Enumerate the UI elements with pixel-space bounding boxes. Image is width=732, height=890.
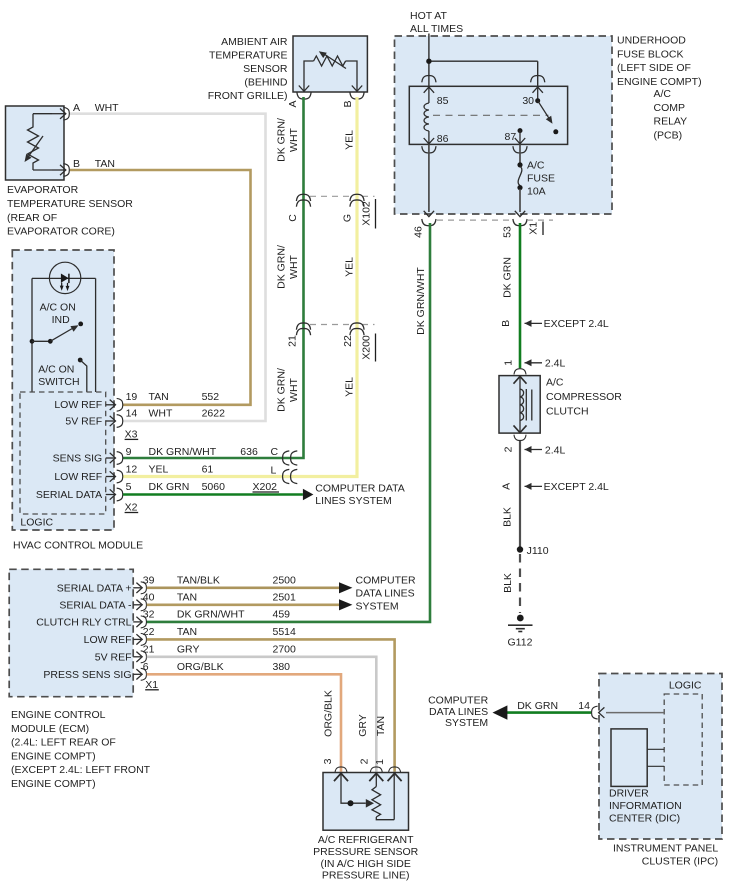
label 6 ORG/BLK 380 — [143, 661, 290, 673]
label HOT AT ALL TIMES — [410, 10, 463, 35]
engine control module dashed box — [9, 569, 133, 696]
svg-text:DK GRN/: DK GRN/ — [276, 118, 288, 162]
svg-text:EXCEPT 2.4L: EXCEPT 2.4L — [544, 481, 609, 493]
A/C fuse 10A — [517, 162, 522, 190]
svg-text:SERIAL DATA: SERIAL DATA — [36, 489, 102, 501]
pin B connector (ambient sensor) — [350, 86, 364, 100]
label 12 YEL 61 L — [126, 464, 277, 477]
wire TAN serial data - — [147, 599, 353, 610]
connector below relay pin 86 — [422, 146, 436, 153]
wire DK GRN serial data (pin 5) — [123, 489, 313, 501]
svg-text:5514: 5514 — [273, 626, 297, 638]
label A/C ON SWITCH — [38, 364, 79, 389]
svg-text:J110: J110 — [527, 545, 549, 557]
junction node (battery feed) — [426, 59, 431, 64]
svg-text:IND: IND — [52, 314, 71, 326]
label A/C COMP RELAY (PCB) — [654, 88, 688, 141]
svg-text:14: 14 — [126, 408, 138, 420]
svg-text:85: 85 — [437, 95, 449, 107]
dashed link X1 connector — [437, 219, 553, 221]
svg-text:DRIVER: DRIVER — [609, 788, 649, 800]
svg-text:6: 6 — [143, 661, 149, 673]
junction J110 — [517, 545, 549, 557]
svg-text:DATA LINES: DATA LINES — [356, 588, 415, 600]
svg-text:53: 53 — [502, 226, 514, 238]
svg-text:X2: X2 — [125, 502, 138, 514]
instrument panel cluster dashed box — [599, 674, 722, 840]
svg-text:636: 636 — [240, 446, 258, 458]
thermistor (evaporator temperature sensor) — [25, 114, 53, 170]
svg-text:2500: 2500 — [273, 574, 297, 586]
svg-text:GRY: GRY — [177, 643, 200, 655]
label 22 TAN 5514 — [143, 626, 296, 638]
relay coil pin 85 to 86 — [424, 87, 434, 144]
svg-text:EVAPORATOR CORE): EVAPORATOR CORE) — [7, 226, 115, 238]
inline connector L (row 12) — [283, 469, 298, 483]
wires DIC to logic — [647, 749, 664, 766]
wire ORG/BLK press sens sig to pressure sensor pin 3 — [147, 674, 341, 772]
pin A connector (ambient sensor) — [297, 86, 311, 100]
label A/C COMPRESSOR CLUTCH — [546, 377, 622, 418]
pin connector 5V REF 14 — [106, 415, 123, 428]
svg-text:SENSOR: SENSOR — [243, 63, 288, 75]
svg-text:A/C ON: A/C ON — [38, 364, 74, 376]
svg-text:A/C: A/C — [654, 88, 672, 100]
A/C refrigerant pressure sensor box — [323, 773, 409, 831]
svg-text:LOW REF: LOW REF — [54, 399, 102, 411]
label DK GRN/WHT (segment 1) — [276, 118, 301, 162]
relay dashed actuation line — [433, 114, 549, 116]
svg-text:INSTRUMENT PANEL: INSTRUMENT PANEL — [613, 843, 718, 855]
label X200 — [361, 334, 376, 362]
svg-text:X200: X200 — [361, 335, 373, 360]
arrow 2.4L (pin 1) — [525, 358, 566, 370]
svg-text:DK GRN/WHT: DK GRN/WHT — [415, 267, 427, 335]
svg-text:(LEFT SIDE OF: (LEFT SIDE OF — [617, 62, 691, 74]
label underhood fuse block — [617, 35, 702, 88]
svg-text:FUSE: FUSE — [527, 173, 555, 185]
svg-text:1: 1 — [374, 759, 386, 765]
svg-text:(PCB): (PCB) — [654, 129, 683, 141]
label DK GRN/WHT (segment 3) — [276, 368, 301, 412]
svg-text:(2.4L: LEFT REAR OF: (2.4L: LEFT REAR OF — [11, 737, 116, 749]
svg-text:2.4L: 2.4L — [545, 358, 566, 370]
label X3 — [125, 428, 139, 440]
A/C on indicator LED — [49, 262, 80, 293]
pin connector SERIAL DATA + 39 — [133, 582, 146, 594]
svg-text:FRONT GRILLE): FRONT GRILLE) — [208, 90, 288, 102]
svg-text:ENGINE COMPT): ENGINE COMPT) — [11, 750, 96, 762]
svg-text:ENGINE COMPT): ENGINE COMPT) — [617, 76, 702, 88]
svg-text:LOGIC: LOGIC — [669, 679, 702, 691]
svg-text:5V REF: 5V REF — [65, 415, 102, 427]
svg-text:COMPUTER DATA: COMPUTER DATA — [315, 483, 404, 495]
svg-text:L: L — [271, 465, 277, 477]
label 32 DK GRN/WHT 459 — [143, 608, 290, 620]
pin connector LOW REF 22 — [133, 633, 146, 645]
svg-text:DK GRN/WHT: DK GRN/WHT — [149, 446, 217, 458]
label X2 — [125, 502, 139, 514]
label 5 DK GRN 5060 X202 — [126, 481, 279, 493]
svg-text:ENGINE COMPT): ENGINE COMPT) — [11, 778, 96, 790]
A/C on indicator wiring — [32, 278, 96, 392]
svg-text:A/C REFRIGERANT: A/C REFRIGERANT — [318, 834, 414, 846]
label A/C FUSE 10A — [527, 160, 555, 198]
A/C compressor clutch box — [499, 376, 540, 434]
svg-text:TAN: TAN — [149, 391, 169, 403]
wire IPC pin 14 internal — [599, 707, 665, 717]
connector fuse block pin 46 — [422, 219, 436, 226]
arrow EXCEPT 2.4L (pin A) — [525, 481, 609, 493]
svg-text:87: 87 — [505, 131, 517, 143]
svg-text:PRESSURE LINE): PRESSURE LINE) — [322, 870, 410, 882]
pin connector LOW REF 12 — [106, 470, 123, 483]
svg-text:ORG/BLK: ORG/BLK — [177, 661, 224, 673]
svg-text:WHT: WHT — [95, 102, 119, 114]
svg-text:WHT: WHT — [288, 254, 300, 278]
svg-text:TEMPERATURE SENSOR: TEMPERATURE SENSOR — [7, 198, 133, 210]
label DRIVER INFORMATION CENTER (DIC) — [609, 788, 682, 825]
evaporator temperature sensor box — [6, 106, 65, 180]
wire TAN/BLK serial data + — [147, 582, 353, 593]
svg-text:CLUTCH RLY CTRL: CLUTCH RLY CTRL — [36, 617, 131, 629]
svg-text:SENS SIG: SENS SIG — [53, 452, 103, 464]
svg-text:X1: X1 — [145, 679, 158, 691]
label A/C REFRIGERANT PRESSURE SENSOR — [313, 834, 418, 881]
svg-text:DATA LINES: DATA LINES — [429, 706, 488, 718]
svg-text:9: 9 — [126, 446, 132, 458]
svg-text:COMPUTER: COMPUTER — [428, 694, 489, 706]
pressure sensor potentiometer — [334, 773, 402, 819]
svg-text:SWITCH: SWITCH — [38, 376, 79, 388]
wire relay 86 to fuse block pin 46 — [424, 144, 434, 216]
label 39 TAN/BLK 2500 — [143, 574, 296, 586]
svg-text:ENGINE CONTROL: ENGINE CONTROL — [11, 709, 106, 721]
pin connector PRESS SENS SIG 6 — [133, 668, 146, 680]
wire DK GRN fuse 53 to compressor clutch — [519, 223, 522, 368]
wire battery feed (hot at all times) — [429, 34, 538, 87]
svg-text:YEL: YEL — [344, 257, 356, 277]
svg-text:B: B — [500, 320, 512, 327]
svg-text:22: 22 — [342, 335, 354, 347]
pin A connector (evaporator) — [52, 107, 69, 120]
label X102 — [361, 199, 376, 229]
svg-text:G: G — [342, 214, 354, 222]
label COMPUTER DATA LINES SYSTEM (IPC) — [428, 694, 489, 729]
svg-text:BLK: BLK — [502, 507, 514, 527]
label A/C ON IND — [40, 301, 76, 326]
svg-text:2501: 2501 — [273, 591, 297, 603]
svg-text:COMPRESSOR: COMPRESSOR — [546, 391, 622, 403]
inline connector X200 — [296, 323, 374, 335]
wire GRY 5v ref to pressure sensor pin 2 — [147, 657, 377, 772]
label COMPUTER DATA LINES SYSTEM (HVAC) — [315, 483, 404, 508]
connector at relay pin 30 — [531, 76, 545, 83]
svg-text:CENTER (DIC): CENTER (DIC) — [609, 813, 680, 825]
svg-text:2622: 2622 — [202, 408, 226, 420]
svg-text:5V REF: 5V REF — [95, 652, 132, 664]
svg-text:LOW REF: LOW REF — [54, 471, 102, 483]
wire TAN low ref to pressure sensor pin 1 — [147, 639, 395, 771]
svg-text:GRY: GRY — [357, 714, 369, 737]
driver information center box — [611, 729, 647, 787]
svg-text:(BEHIND: (BEHIND — [244, 77, 288, 89]
label X1 (ECM) — [145, 679, 159, 691]
IPC logic dashed box — [664, 694, 702, 785]
svg-text:86: 86 — [437, 133, 449, 145]
svg-text:B: B — [73, 158, 80, 170]
svg-text:YEL: YEL — [149, 464, 169, 476]
svg-text:WHT: WHT — [288, 127, 300, 151]
svg-text:DK GRN: DK GRN — [517, 700, 558, 712]
svg-text:EXCEPT 2.4L: EXCEPT 2.4L — [544, 318, 609, 330]
HVAC control module dashed box — [12, 250, 114, 530]
pin connector LOW REF 19 — [106, 398, 123, 411]
svg-text:22: 22 — [143, 626, 155, 638]
svg-text:2.4L: 2.4L — [545, 444, 566, 456]
svg-text:TAN/BLK: TAN/BLK — [177, 574, 220, 586]
wire fuse to pin 53 — [515, 189, 525, 217]
wire TAN from evaporator B to HVAC pin 19 — [70, 170, 251, 405]
svg-text:A/C: A/C — [546, 377, 564, 389]
svg-text:A: A — [501, 483, 513, 490]
svg-text:12: 12 — [126, 464, 138, 476]
connector IPC pin 14 — [592, 706, 598, 719]
label evaporator temperature sensor — [7, 184, 133, 237]
label COMPUTER DATA LINES SYSTEM (ECM) — [356, 575, 417, 613]
svg-text:X102: X102 — [361, 201, 373, 226]
svg-text:SYSTEM: SYSTEM — [356, 601, 399, 613]
arrow 2.4L (pin 2) — [525, 444, 566, 456]
label X1 (fuse block) — [528, 222, 544, 236]
svg-text:YEL: YEL — [344, 130, 356, 150]
svg-text:HOT AT: HOT AT — [410, 10, 448, 22]
svg-text:TEMPERATURE: TEMPERATURE — [209, 50, 288, 62]
svg-text:AMBIENT AIR: AMBIENT AIR — [221, 36, 288, 48]
svg-text:TAN: TAN — [375, 716, 387, 736]
wire WHT from evaporator A to HVAC pin 14 — [70, 114, 266, 421]
svg-text:2: 2 — [503, 446, 515, 452]
label pin B TAN — [73, 158, 115, 170]
arrow EXCEPT 2.4L (pin B) — [525, 318, 609, 330]
svg-text:TAN: TAN — [95, 158, 115, 170]
svg-text:(REAR OF: (REAR OF — [7, 212, 57, 224]
thermistor (ambient air temperature sensor) — [304, 51, 357, 91]
label 40 TAN 2501 — [143, 591, 296, 603]
svg-text:LINES SYSTEM: LINES SYSTEM — [315, 495, 391, 507]
connector fuse block pin 53 — [513, 219, 527, 226]
svg-text:5: 5 — [126, 481, 132, 493]
svg-text:WHT: WHT — [149, 408, 173, 420]
svg-text:X3: X3 — [125, 428, 138, 440]
connector at relay pin 85 — [422, 76, 436, 83]
svg-text:DK GRN: DK GRN — [149, 481, 190, 493]
svg-text:21: 21 — [287, 335, 299, 347]
svg-text:A/C: A/C — [527, 160, 545, 172]
connector at clutch bottom — [514, 435, 526, 441]
label 19 TAN 552 — [126, 391, 220, 403]
svg-text:LOW REF: LOW REF — [84, 634, 132, 646]
wire BLK J110 to G112 (dashed) — [519, 554, 521, 613]
inline connector X102 — [296, 194, 374, 206]
pin B connector (evaporator) — [52, 164, 69, 177]
svg-text:14: 14 — [578, 700, 590, 712]
svg-text:WHT: WHT — [288, 377, 300, 401]
ambient air temperature sensor box — [293, 36, 367, 92]
svg-text:1: 1 — [503, 360, 515, 366]
svg-text:DK GRN/: DK GRN/ — [276, 245, 288, 289]
svg-text:DK GRN/: DK GRN/ — [276, 368, 288, 412]
svg-text:RELAY: RELAY — [654, 116, 688, 128]
label DK GRN/WHT (segment 2) — [276, 245, 301, 289]
pin connector SENS SIG 9 — [106, 452, 123, 465]
svg-text:A: A — [287, 100, 299, 107]
inline connector C (row 9) — [283, 451, 298, 465]
svg-text:552: 552 — [202, 391, 220, 403]
relay pin 87 — [515, 128, 525, 144]
svg-text:32: 32 — [143, 608, 155, 620]
relay switch pin 30 to 87 — [533, 87, 559, 134]
svg-text:46: 46 — [413, 226, 425, 238]
svg-text:SERIAL DATA -: SERIAL DATA - — [59, 600, 132, 612]
wire DK GRN to computer data lines — [493, 705, 592, 719]
label 9 DK GRN/WHT 636 C — [126, 446, 279, 458]
pin connector SERIAL DATA 5 — [106, 488, 123, 501]
svg-text:CLUTCH: CLUTCH — [546, 405, 589, 417]
wire BLK clutch to J110 — [519, 441, 521, 550]
wire DK GRN/WHT from ambient A down to HVAC pin 9 — [123, 97, 304, 458]
svg-text:ORG/BLK: ORG/BLK — [322, 690, 334, 737]
svg-text:3: 3 — [322, 758, 334, 764]
svg-text:459: 459 — [273, 608, 291, 620]
compressor clutch coil — [514, 376, 532, 433]
connector pressure sensor pin 3 — [335, 767, 347, 773]
svg-text:SERIAL DATA +: SERIAL DATA + — [57, 583, 132, 595]
label 21 GRY 2700 — [143, 643, 296, 655]
svg-text:C: C — [271, 446, 279, 458]
svg-text:2700: 2700 — [273, 643, 297, 655]
svg-text:TAN: TAN — [177, 591, 197, 603]
svg-text:5060: 5060 — [202, 481, 226, 493]
svg-text:40: 40 — [143, 591, 155, 603]
svg-text:TAN: TAN — [177, 626, 197, 638]
svg-text:B: B — [342, 100, 354, 107]
svg-text:C: C — [287, 214, 299, 222]
ground G112 — [508, 615, 533, 649]
svg-text:380: 380 — [273, 661, 291, 673]
pin connector SERIAL DATA - 40 — [133, 599, 146, 611]
svg-text:A: A — [73, 102, 80, 114]
connector pressure sensor pin 1 — [389, 767, 401, 773]
svg-text:61: 61 — [202, 464, 214, 476]
svg-text:PRESSURE SENSOR: PRESSURE SENSOR — [313, 846, 418, 858]
svg-text:MODULE (ECM): MODULE (ECM) — [11, 723, 89, 735]
svg-text:19: 19 — [126, 391, 138, 403]
svg-text:CLUSTER (IPC): CLUSTER (IPC) — [642, 856, 718, 868]
A/C on switch — [30, 322, 87, 393]
svg-text:DK GRN: DK GRN — [502, 257, 514, 298]
wire DK GRN/WHT fuse 46 to ECM pin 32 — [146, 223, 430, 622]
svg-text:PRESS SENS SIG: PRESS SENS SIG — [43, 669, 131, 681]
svg-text:UNDERHOOD: UNDERHOOD — [617, 35, 686, 47]
svg-text:EVAPORATOR: EVAPORATOR — [7, 184, 79, 196]
svg-text:21: 21 — [143, 643, 155, 655]
svg-text:HVAC CONTROL MODULE: HVAC CONTROL MODULE — [13, 540, 143, 552]
svg-text:LOGIC: LOGIC — [20, 517, 53, 529]
svg-text:ALL TIMES: ALL TIMES — [410, 23, 463, 35]
svg-text:YEL: YEL — [344, 377, 356, 397]
pin connector 5V REF 21 — [133, 651, 146, 663]
svg-text:30: 30 — [522, 95, 534, 107]
underhood fuse block dashed box — [395, 36, 613, 214]
svg-text:SYSTEM: SYSTEM — [445, 717, 488, 729]
svg-text:A/C ON: A/C ON — [40, 301, 76, 313]
wire relay 87 to A/C fuse — [519, 144, 521, 164]
HVAC logic dashed box — [20, 392, 106, 514]
svg-text:G112: G112 — [508, 637, 533, 649]
svg-text:DK GRN/WHT: DK GRN/WHT — [177, 608, 245, 620]
svg-text:COMPUTER: COMPUTER — [356, 575, 417, 587]
connector pressure sensor pin 2 — [370, 767, 382, 773]
label INSTRUMENT PANEL CLUSTER (IPC) — [613, 843, 718, 868]
A/C comp relay box — [409, 86, 567, 144]
label 14 WHT 2622 — [126, 408, 226, 420]
svg-text:2: 2 — [358, 758, 370, 764]
svg-text:(IN A/C HIGH SIDE: (IN A/C HIGH SIDE — [320, 858, 410, 870]
connector at clutch top — [514, 369, 526, 375]
svg-text:39: 39 — [143, 574, 155, 586]
svg-text:10A: 10A — [527, 186, 546, 198]
svg-text:X1: X1 — [528, 222, 540, 235]
label ambient air temperature sensor — [208, 36, 288, 102]
label ENGINE CONTROL MODULE (ECM) — [11, 709, 151, 790]
wire YEL from ambient B down to HVAC pin 12 — [123, 97, 357, 477]
svg-text:(EXCEPT 2.4L: LEFT FRONT: (EXCEPT 2.4L: LEFT FRONT — [11, 764, 151, 776]
label pin A WHT — [73, 102, 119, 114]
connector below relay pin 87 — [513, 146, 527, 153]
svg-text:COMP: COMP — [654, 102, 686, 114]
svg-text:BLK: BLK — [502, 573, 514, 593]
svg-text:INFORMATION: INFORMATION — [609, 800, 682, 812]
pin connector CLUTCH RLY CTRL 32 — [133, 616, 146, 628]
svg-text:FUSE BLOCK: FUSE BLOCK — [617, 48, 684, 60]
